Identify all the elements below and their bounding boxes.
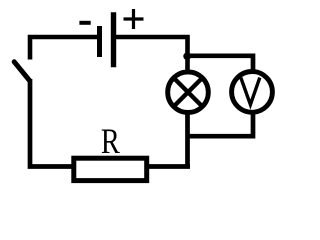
battery polarity label minus xyxy=(79,21,90,25)
battery negative plate (short) xyxy=(97,26,102,57)
wire from voltmeter bottom down and left to lamp bottom wire xyxy=(186,112,253,136)
junction node above lamp xyxy=(183,52,191,60)
lamp (circle with X) xyxy=(168,72,209,113)
svg-text:R: R xyxy=(101,121,120,161)
resistor R (box) xyxy=(74,158,147,180)
switch xyxy=(14,62,29,81)
label R xyxy=(101,121,120,161)
wire from battery negative terminal to top-left corner and down to switch xyxy=(30,37,97,60)
voltmeter V (circle with V) xyxy=(232,72,273,113)
wire from lamp bottom down to bottom rail xyxy=(185,111,190,167)
battery positive plate (long) xyxy=(111,12,116,67)
wire from switch down left side and along bottom to resistor and lamp xyxy=(30,79,190,167)
battery polarity label plus xyxy=(124,9,144,29)
wire from battery positive terminal to top-right corner down to lamp xyxy=(116,37,188,73)
wire branch from junction to voltmeter top xyxy=(188,56,254,71)
